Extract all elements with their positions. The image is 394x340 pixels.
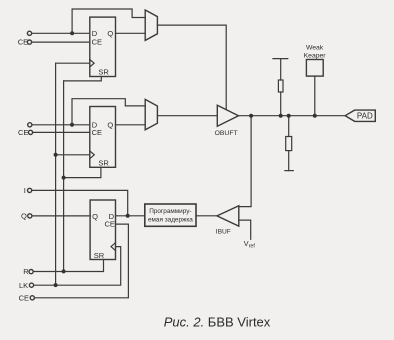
flip-flop FF1 (output tri-state register) <box>90 17 116 76</box>
resistor R pullup <box>273 58 288 60</box>
wire mux M1 out to OBUFT control <box>157 25 226 109</box>
svg-text:CE: CE <box>92 128 102 137</box>
node T input pin <box>27 31 31 35</box>
wire weak keeper to rail <box>314 76 316 116</box>
flip-flop FF2 (output register) <box>90 107 116 168</box>
node CE2 input pin <box>28 130 32 134</box>
svg-text:Weak: Weak <box>306 45 324 52</box>
wire IBUF Vref input <box>239 220 251 239</box>
op-amp IBUF input buffer <box>217 206 239 226</box>
svg-text:Keaper: Keaper <box>304 53 327 60</box>
svg-text:Q: Q <box>107 29 113 38</box>
resistor R pulldown <box>288 116 290 137</box>
svg-text:LK: LK <box>19 281 28 290</box>
wire R to FF3 SR <box>33 260 103 272</box>
flip-flop FF3 (input register, mirrored) <box>90 200 115 260</box>
svg-text:R: R <box>23 267 29 276</box>
wire I line to delay input node <box>32 190 128 215</box>
wire LK to FF3 clock <box>34 247 121 286</box>
FF3 clock triangle <box>111 243 116 251</box>
svg-text:Q: Q <box>21 212 27 221</box>
wire CE1 to FF1 CE <box>32 41 90 43</box>
wire rail to IBUF input <box>239 116 251 207</box>
wire Q pin to FF3 Q <box>32 215 90 217</box>
wire FF3 D from delay box <box>116 215 145 217</box>
wire delay box to IBUF <box>196 215 217 217</box>
weak keeper box <box>306 60 323 77</box>
svg-text:I: I <box>24 186 26 195</box>
programmable delay box <box>145 204 196 226</box>
node CE3 input pin <box>30 296 34 300</box>
svg-text:SR: SR <box>98 68 109 77</box>
wire CE2 to FF2 CE <box>33 131 90 133</box>
wire bypass O to mux M2 <box>72 99 145 125</box>
node I output pin <box>28 188 32 192</box>
wire mux M2 out to OBUFT input <box>157 115 217 117</box>
wire bypass T to mux M1 <box>72 9 145 33</box>
wire clock bus to FF1 clock <box>56 62 90 64</box>
wire FF2 SR to SR bus <box>64 167 101 177</box>
mux M1 <box>145 10 157 40</box>
svg-text:CE: CE <box>92 37 102 46</box>
svg-text:IBUF: IBUF <box>216 228 231 235</box>
FF1 clock triangle <box>90 60 94 67</box>
svg-text:PAD: PAD <box>357 112 373 121</box>
svg-text:SR: SR <box>98 158 109 167</box>
node R input pin <box>29 270 33 274</box>
node Q output pin <box>28 214 32 218</box>
svg-text:Программиру-: Программиру- <box>149 208 191 215</box>
node O input pin <box>28 123 32 127</box>
wire CE3 to FF3 CE <box>35 224 129 298</box>
delay box label <box>148 208 193 224</box>
wire clock bus <box>55 63 57 285</box>
wire SR bus <box>63 81 65 272</box>
svg-text:Рис. 2. БВВ Virtex: Рис. 2. БВВ Virtex <box>164 315 271 330</box>
wire FF2 Q to mux M2 <box>116 124 146 126</box>
svg-text:емая задержка: емая задержка <box>148 217 193 224</box>
wire output rail OBUFT to PAD <box>239 115 346 117</box>
wire T input to FF1 D <box>32 32 90 34</box>
FF2 clock triangle <box>90 151 95 159</box>
svg-text:CE: CE <box>18 37 28 46</box>
svg-text:Q: Q <box>92 212 98 221</box>
svg-text:CE: CE <box>18 128 28 137</box>
wire clock bus to FF2 clock <box>56 154 90 156</box>
node CE1 input pin <box>27 40 31 44</box>
weak keeper label <box>304 45 327 60</box>
svg-text:CE: CE <box>19 294 29 303</box>
PAD symbol <box>345 110 375 121</box>
wire O input to FF2 D <box>32 124 90 126</box>
svg-text:CE: CE <box>105 220 115 229</box>
wire FF1 Q to mux M1 <box>116 32 146 34</box>
svg-text:SR: SR <box>94 251 105 260</box>
ground bar pulldown <box>285 170 293 172</box>
svg-text:Q: Q <box>107 121 113 130</box>
op-amp OBUFT output buffer <box>217 105 238 126</box>
wire FF1 SR to SR bus <box>64 77 102 81</box>
svg-text:OBUFT: OBUFT <box>215 130 238 137</box>
mux M2 <box>145 99 157 129</box>
node LK clock input pin <box>29 283 33 287</box>
